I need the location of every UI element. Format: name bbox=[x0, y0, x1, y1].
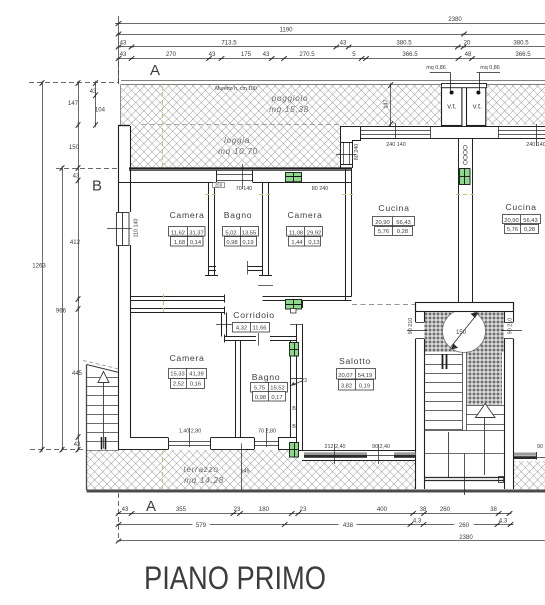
svg-text:0,28: 0,28 bbox=[524, 227, 535, 233]
svg-text:1,44: 1,44 bbox=[291, 240, 303, 246]
svg-text:43: 43 bbox=[74, 441, 81, 448]
svg-text:Cucina: Cucina bbox=[378, 203, 409, 213]
exterior stair (left) bbox=[83, 361, 119, 450]
svg-text:0,98: 0,98 bbox=[255, 395, 266, 401]
svg-text:80 240: 80 240 bbox=[354, 144, 360, 161]
svg-text:Bagno: Bagno bbox=[224, 210, 253, 220]
top dimension row 713.5/380.5 bbox=[119, 46, 545, 48]
svg-text:90 2,40: 90 2,40 bbox=[372, 444, 390, 450]
camera1 south wall bbox=[130, 295, 225, 303]
central party wall bbox=[459, 138, 473, 303]
svg-text:43: 43 bbox=[122, 506, 129, 513]
svg-text:380.5: 380.5 bbox=[396, 40, 412, 47]
stairwell west wall with door bbox=[407, 303, 427, 489]
building west wall bbox=[118, 125, 130, 450]
stair left flight treads bbox=[424, 355, 462, 430]
svg-text:270: 270 bbox=[166, 51, 177, 58]
svg-text:400: 400 bbox=[377, 506, 388, 513]
svg-text:180: 180 bbox=[259, 506, 270, 513]
svg-text:43: 43 bbox=[209, 51, 216, 58]
svg-text:150: 150 bbox=[69, 144, 80, 151]
svg-text:A: A bbox=[146, 498, 156, 515]
svg-text:80 240: 80 240 bbox=[312, 186, 329, 192]
svg-text:38: 38 bbox=[420, 506, 427, 513]
svg-text:90: 90 bbox=[537, 444, 543, 450]
svg-text:0,19: 0,19 bbox=[359, 384, 370, 390]
svg-text:90 210: 90 210 bbox=[508, 318, 514, 335]
bagno2 east wall bbox=[291, 341, 303, 451]
svg-text:270.5: 270.5 bbox=[299, 51, 315, 58]
svg-text:0,19: 0,19 bbox=[242, 240, 253, 246]
svg-text:15,52: 15,52 bbox=[270, 386, 285, 392]
stairwell checker landing bbox=[424, 312, 504, 405]
svg-text:mq 10,70: mq 10,70 bbox=[218, 147, 258, 156]
svg-text:Muretto h. cm 100: Muretto h. cm 100 bbox=[215, 86, 257, 92]
north wall band right (cucina block) bbox=[341, 126, 545, 142]
svg-text:Bagno: Bagno bbox=[252, 372, 281, 382]
green window markers bbox=[286, 169, 471, 458]
svg-text:110 140: 110 140 bbox=[134, 218, 140, 237]
svg-text:5,76: 5,76 bbox=[378, 229, 389, 235]
svg-text:mq 14,28: mq 14,28 bbox=[184, 476, 224, 485]
svg-text:1263: 1263 bbox=[32, 263, 46, 270]
svg-text:240 140: 240 140 bbox=[526, 142, 545, 148]
svg-text:v.t.: v.t. bbox=[473, 102, 483, 111]
svg-text:48: 48 bbox=[465, 51, 472, 58]
svg-text:966: 966 bbox=[56, 308, 67, 315]
svg-text:terrazzo: terrazzo bbox=[183, 465, 218, 474]
west window 110x140 bbox=[107, 212, 132, 246]
svg-text:A: A bbox=[150, 62, 160, 79]
svg-text:poggiolo: poggiolo bbox=[271, 94, 309, 103]
window 240x140 cucina right bbox=[498, 124, 545, 146]
svg-text:3,82: 3,82 bbox=[341, 384, 352, 390]
pipe circles on party wall bbox=[463, 146, 467, 165]
svg-text:43: 43 bbox=[120, 51, 127, 58]
top dimension row 1190 bbox=[119, 34, 545, 36]
svg-text:147: 147 bbox=[68, 100, 79, 107]
svg-text:240 140: 240 140 bbox=[386, 142, 406, 148]
poggiolo/loggia dashed separation bbox=[142, 124, 340, 126]
bottom dimension row 3 bbox=[119, 540, 545, 542]
stair right flight treads bbox=[424, 406, 504, 454]
stairwell entrance double door bbox=[424, 454, 504, 496]
bagno1 south wall with door bbox=[209, 261, 263, 275]
stair stringer bbox=[463, 352, 467, 431]
svg-text:B: B bbox=[292, 424, 296, 430]
svg-text:0,14: 0,14 bbox=[190, 240, 202, 246]
svg-text:43: 43 bbox=[120, 40, 127, 47]
south wall right of stairwell bbox=[514, 452, 545, 460]
svg-text:70 140: 70 140 bbox=[236, 186, 253, 192]
bottom dimension row 2 bbox=[119, 524, 514, 526]
svg-text:4,32: 4,32 bbox=[236, 325, 247, 331]
loggia hatch bbox=[129, 125, 352, 169]
svg-text:438: 438 bbox=[343, 522, 354, 529]
north wall band left (loggia south wall) bbox=[119, 164, 352, 189]
svg-text:445: 445 bbox=[72, 370, 83, 377]
poggiolo balcony hatch bbox=[121, 81, 545, 126]
stair up arrow bbox=[449, 404, 496, 478]
svg-text:Salotto: Salotto bbox=[339, 356, 371, 366]
svg-text:11,62: 11,62 bbox=[171, 230, 185, 236]
salotto west wall with door bbox=[290, 301, 303, 451]
svg-text:56,43: 56,43 bbox=[396, 220, 411, 226]
svg-text:0,28: 0,28 bbox=[397, 229, 408, 235]
svg-text:366.5: 366.5 bbox=[515, 51, 531, 58]
svg-text:0,98: 0,98 bbox=[226, 240, 237, 246]
svg-text:2,52: 2,52 bbox=[173, 382, 184, 388]
stairwell north wall bbox=[416, 303, 514, 312]
svg-text:23: 23 bbox=[300, 506, 307, 513]
data tables bbox=[169, 215, 541, 402]
svg-text:43: 43 bbox=[73, 173, 80, 180]
svg-text:20: 20 bbox=[464, 40, 471, 47]
svg-text:13,55: 13,55 bbox=[242, 230, 257, 236]
stair turning circle bbox=[443, 310, 486, 353]
svg-text:mq 0,86: mq 0,86 bbox=[480, 65, 499, 71]
bagno2 west wall bbox=[236, 341, 241, 438]
svg-text:260: 260 bbox=[440, 506, 451, 513]
camera2 south wall bbox=[263, 297, 352, 301]
loggia right wall + window 80x240 bbox=[336, 142, 356, 168]
top dimension row 2380 bbox=[115, 16, 545, 84]
svg-text:Camera: Camera bbox=[169, 353, 204, 363]
svg-text:v.t.: v.t. bbox=[447, 102, 457, 111]
svg-text:104: 104 bbox=[95, 107, 106, 114]
svg-text:0,17: 0,17 bbox=[271, 395, 282, 401]
svg-text:1190: 1190 bbox=[279, 27, 293, 34]
svg-text:175: 175 bbox=[241, 51, 252, 58]
svg-text:145: 145 bbox=[241, 469, 250, 475]
camera2 east wall bbox=[346, 169, 352, 301]
svg-text:11,66: 11,66 bbox=[252, 325, 266, 331]
stairwell east wall with door bbox=[502, 303, 522, 489]
window 240x140 cucina left bbox=[361, 123, 431, 139]
svg-text:2380: 2380 bbox=[459, 534, 473, 541]
svg-text:366.5: 366.5 bbox=[402, 51, 418, 58]
svg-text:20,90: 20,90 bbox=[504, 218, 519, 224]
svg-text:5,02: 5,02 bbox=[225, 230, 236, 236]
svg-text:56,43: 56,43 bbox=[523, 218, 538, 224]
svg-text:2380: 2380 bbox=[448, 16, 462, 23]
svg-text:20,90: 20,90 bbox=[375, 220, 390, 226]
svg-text:1,40 2,80: 1,40 2,80 bbox=[179, 429, 201, 435]
svg-text:90 210: 90 210 bbox=[408, 318, 414, 335]
svg-text:Camera: Camera bbox=[287, 210, 322, 220]
svg-text:20,07: 20,07 bbox=[338, 373, 353, 379]
svg-text:B: B bbox=[292, 406, 296, 412]
svg-text:43: 43 bbox=[340, 40, 347, 47]
svg-text:147: 147 bbox=[384, 100, 390, 109]
bottom dimension row 1 bbox=[119, 513, 510, 515]
svg-text:0,16: 0,16 bbox=[190, 382, 201, 388]
vertical dimension 147 poggiolo depth bbox=[390, 85, 392, 125]
south wall salotto with windows bbox=[297, 444, 416, 464]
stair cut mark bbox=[443, 354, 447, 369]
svg-text:23: 23 bbox=[234, 506, 241, 513]
svg-text:Corridoio: Corridoio bbox=[233, 310, 275, 320]
terrazzo hatch left bbox=[87, 365, 545, 493]
svg-text:mq 15,38: mq 15,38 bbox=[269, 105, 309, 114]
svg-text:54,19: 54,19 bbox=[358, 373, 373, 379]
svg-text:150: 150 bbox=[456, 329, 467, 336]
svg-text:250: 250 bbox=[215, 183, 223, 188]
svg-text:38: 38 bbox=[490, 506, 497, 513]
svg-text:713.5: 713.5 bbox=[221, 40, 237, 47]
svg-text:5,76: 5,76 bbox=[507, 227, 518, 233]
svg-text:412: 412 bbox=[70, 239, 81, 246]
svg-text:43: 43 bbox=[263, 51, 270, 58]
svg-text:579: 579 bbox=[196, 522, 207, 529]
svg-text:0,13: 0,13 bbox=[308, 240, 319, 246]
v.t. shaft boxes bbox=[430, 73, 500, 126]
south wall camera3+bagno2 bbox=[119, 428, 297, 490]
open plan dashed divider cucina/salotto bbox=[352, 304, 415, 306]
svg-text:29,92: 29,92 bbox=[307, 230, 322, 236]
svg-text:260: 260 bbox=[459, 522, 470, 529]
partition bagno1 / camera2 bbox=[258, 182, 273, 286]
svg-text:Camera: Camera bbox=[169, 210, 204, 220]
svg-text:31,37: 31,37 bbox=[189, 230, 204, 236]
svg-text:PIANO PRIMO: PIANO PRIMO bbox=[144, 560, 326, 596]
partition camera1 / bagno1 bbox=[205, 182, 218, 276]
svg-text:5,75: 5,75 bbox=[254, 386, 265, 392]
svg-text:70 2,80: 70 2,80 bbox=[258, 429, 276, 435]
svg-text:mq 0,86: mq 0,86 bbox=[426, 65, 445, 71]
svg-text:4,3: 4,3 bbox=[413, 518, 422, 525]
corridor south wall with bagno2 door bbox=[224, 333, 297, 346]
top dimension row 270/175 bbox=[119, 58, 545, 60]
svg-text:11,08: 11,08 bbox=[289, 230, 303, 236]
svg-text:loggia: loggia bbox=[224, 136, 250, 145]
svg-text:Cucina: Cucina bbox=[505, 202, 536, 212]
olive survey dashes bbox=[163, 86, 476, 489]
svg-text:4,3: 4,3 bbox=[499, 518, 508, 525]
svg-text:212 2,40: 212 2,40 bbox=[325, 444, 346, 450]
camera3 north wall bbox=[130, 307, 232, 337]
svg-text:1,68: 1,68 bbox=[174, 240, 185, 246]
svg-text:380.5: 380.5 bbox=[513, 40, 529, 47]
svg-text:355: 355 bbox=[176, 506, 187, 513]
svg-text:43: 43 bbox=[90, 88, 97, 95]
svg-text:41,39: 41,39 bbox=[189, 372, 204, 378]
svg-text:15,33: 15,33 bbox=[170, 372, 185, 378]
svg-text:B: B bbox=[92, 178, 102, 195]
left dimension column bbox=[29, 62, 119, 541]
